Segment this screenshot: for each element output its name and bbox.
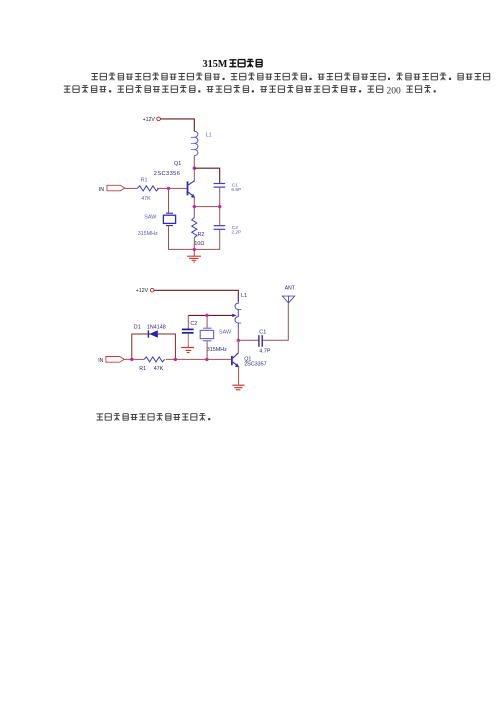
svg-text:R1: R1: [141, 178, 148, 184]
resistor R1 (circuit 1): [137, 186, 159, 191]
svg-text:47K: 47K: [154, 366, 164, 372]
power port +12V (circuit 2): [136, 288, 154, 294]
wire L1 bottom to collector node (circuit 2): [237, 329, 239, 341]
paragraph line 3: [97, 413, 211, 420]
wire SAW top drop (circuit 2): [206, 315, 208, 327]
wire +12V to L1 top (circuit 2): [154, 290, 238, 301]
label IN (circuit 2): [98, 358, 103, 364]
node D1 left junction: [130, 358, 133, 361]
label ANT: [285, 286, 296, 292]
paragraph line 1: [91, 73, 489, 80]
label L1 (circuit 2): [241, 293, 247, 299]
wire R1 to base (circuit 2): [166, 358, 231, 360]
svg-text:2SC3356: 2SC3356: [154, 171, 181, 177]
label R2: [198, 232, 205, 238]
label 315MHz (circuit 1): [138, 231, 158, 237]
wire R1 to base node: [157, 187, 187, 189]
label 2.2P: [231, 229, 241, 235]
node SAW/base junction (circuit 2): [205, 358, 208, 361]
node ground junction (circuit 1): [193, 248, 196, 251]
node emitter junction: [193, 205, 196, 208]
wire L1 bottom to collector node: [193, 156, 195, 169]
svg-text:R1: R1: [139, 366, 146, 372]
wire C2 top drop (circuit 2): [187, 315, 189, 329]
svg-text:315MHz: 315MHz: [138, 231, 158, 237]
power port +12V (circuit 1): [143, 117, 161, 123]
label D1: [134, 324, 141, 330]
label 47K (circuit 2): [154, 366, 164, 372]
svg-text:6.8P: 6.8P: [231, 187, 241, 193]
svg-text:1N4148: 1N4148: [147, 324, 166, 330]
wire collector node down to Q1 collector: [193, 168, 195, 181]
node base junction (circuit 1): [167, 187, 170, 190]
svg-text:IN: IN: [99, 187, 104, 193]
wire IN to R1 (circuit 2): [124, 358, 144, 360]
capacitor C1 (circuit 2): [259, 335, 262, 347]
wire C2 bottom to ground rail: [194, 229, 219, 249]
wire emitter to ground (circuit 2): [238, 366, 240, 384]
resistor R1 (circuit 2): [144, 357, 165, 362]
wire SAW bottom to base line (circuit 2): [206, 341, 208, 359]
wire tap rail to L1 (circuit 2): [188, 314, 236, 317]
svg-text:SAW: SAW: [144, 215, 157, 221]
svg-text:R2: R2: [198, 232, 205, 238]
ground symbol below C2 (circuit 2): [181, 348, 194, 353]
wire SAW bottom to ground rail: [169, 226, 195, 249]
label C2: [232, 225, 238, 231]
label C1 (circuit 2): [259, 330, 266, 336]
label SAW (circuit 1): [144, 215, 157, 221]
label L1 (circuit 1): [206, 133, 212, 139]
node collector junction (circuit 1): [193, 167, 196, 170]
label 10ohm: [194, 241, 204, 247]
svg-text:2.2P: 2.2P: [231, 229, 241, 235]
svg-text:D1: D1: [134, 324, 141, 330]
wire base node down to SAW: [168, 188, 170, 212]
label C2 (circuit 2): [190, 321, 197, 327]
node SAW top junction (circuit 2): [205, 314, 208, 317]
wire C2 bottom to ground (circuit 2): [187, 334, 189, 347]
svg-text:C2: C2: [190, 321, 197, 327]
inductor L1 (circuit 1): [191, 131, 198, 155]
transistor Q1 (circuit 1): [188, 181, 196, 198]
resistor R2 (circuit 1): [192, 207, 197, 250]
wire C1 to antenna riser (circuit 2): [263, 303, 289, 340]
wire C1 bottom to C2 top: [219, 187, 221, 226]
label 6.8P: [231, 187, 241, 193]
node D1 right junction: [174, 358, 177, 361]
ground symbol below Q1 (circuit 2): [232, 385, 244, 390]
svg-text:+12V: +12V: [136, 288, 149, 294]
svg-text:L1: L1: [206, 133, 212, 139]
svg-text:2SC3357: 2SC3357: [244, 361, 266, 367]
svg-text:315M: 315M: [203, 59, 228, 70]
port IN (circuit 2): [106, 357, 124, 363]
paragraph line 2: [64, 85, 436, 96]
svg-text:ANT: ANT: [285, 286, 296, 292]
svg-text:Q1: Q1: [174, 161, 181, 167]
document title 315M remote-control circuit: [203, 59, 263, 70]
diode D1: [148, 330, 157, 338]
wire +12V to L1 top: [160, 119, 194, 131]
node right column mid junction: [218, 205, 221, 208]
svg-text:C1: C1: [259, 330, 266, 336]
wire collector node to C1 (circuit 2): [238, 339, 258, 341]
transistor Q1 (circuit 2): [232, 353, 239, 368]
svg-text:47K: 47K: [141, 196, 151, 202]
svg-text:+12V: +12V: [143, 117, 156, 123]
svg-text:315MHz: 315MHz: [207, 347, 227, 353]
label Q1 (circuit 1): [174, 161, 181, 167]
capacitor C2 (circuit 1): [214, 226, 226, 230]
label 315MHz (circuit 2): [207, 347, 227, 353]
label Q1 (circuit 2): [244, 356, 251, 362]
wire collector node to C1 top: [194, 168, 219, 183]
label C1: [232, 182, 238, 188]
antenna symbol: [282, 296, 294, 303]
label 2SC3357: [244, 361, 266, 367]
svg-text:4.7P: 4.7P: [259, 348, 270, 354]
ground symbol (circuit 1): [187, 249, 201, 262]
inductor L1 (circuit 2): [235, 302, 241, 329]
capacitor C1 (circuit 1): [214, 184, 226, 188]
label 4.7P: [259, 348, 270, 354]
svg-text:10Ω: 10Ω: [194, 241, 204, 247]
SAW resonator Y1 (circuit 1): [163, 213, 175, 225]
wire emitter to right column: [194, 206, 219, 208]
label R1 (circuit 2): [139, 366, 146, 372]
node collector junction (circuit 2): [237, 339, 241, 343]
label IN (circuit 1): [99, 187, 104, 193]
SAW resonator (circuit 2): [200, 328, 213, 341]
label SAW (circuit 2): [219, 330, 232, 336]
svg-text:L1: L1: [241, 293, 247, 299]
label 2SC3356: [154, 171, 181, 177]
svg-text:200: 200: [387, 86, 402, 96]
capacitor C2 (circuit 2): [182, 329, 194, 332]
label 1N4148: [147, 324, 166, 330]
wire IN to R1: [125, 187, 138, 189]
wire D1 left branch: [132, 334, 176, 359]
wire collector up to node (circuit 2): [237, 340, 239, 352]
svg-text:IN: IN: [98, 358, 103, 364]
label R1 (circuit 1): [141, 178, 148, 184]
wire emitter down: [193, 197, 195, 207]
port IN (circuit 1): [107, 185, 125, 191]
svg-text:SAW: SAW: [219, 330, 232, 336]
label 47K (circuit 1): [141, 196, 151, 202]
